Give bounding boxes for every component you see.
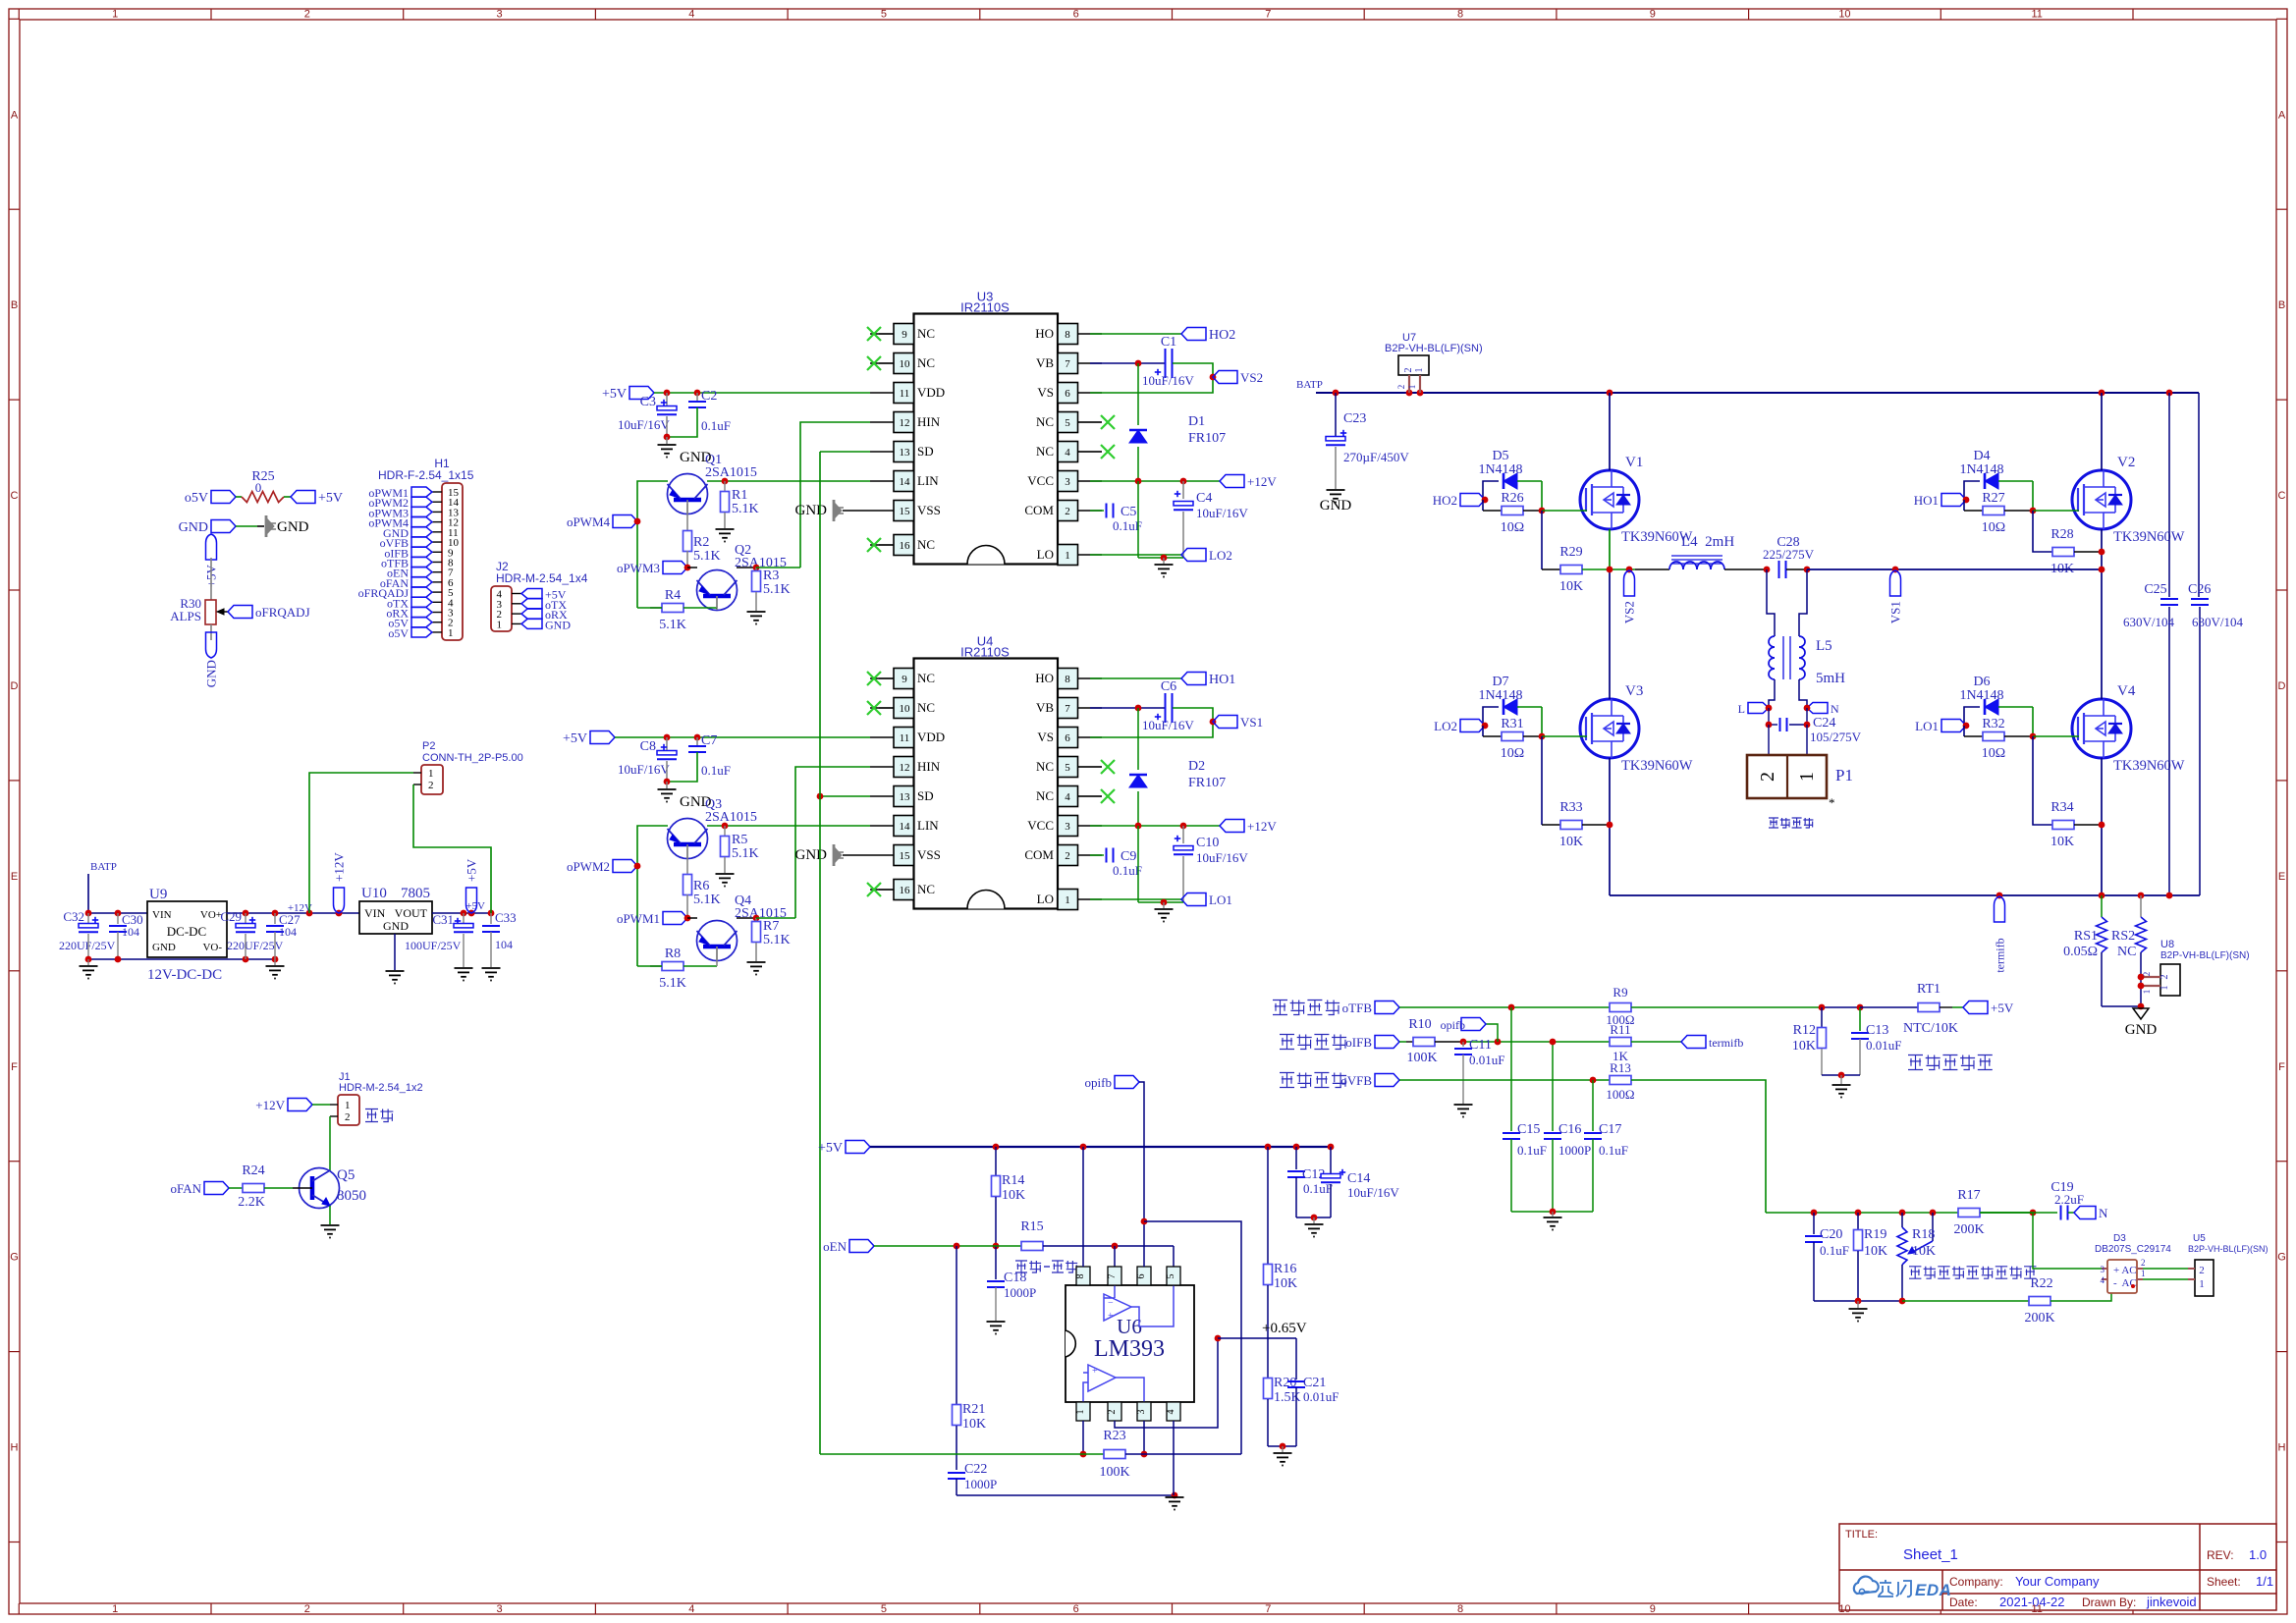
svg-text:U6: U6	[1117, 1315, 1142, 1338]
ground	[716, 528, 735, 530]
ground	[455, 967, 473, 969]
svg-text:9: 9	[902, 674, 907, 685]
svg-text:104: 104	[495, 938, 513, 951]
svg-text:C25: C25	[2144, 582, 2166, 597]
svg-text:+: +	[1108, 1311, 1114, 1322]
svg-text:R33: R33	[1559, 800, 1582, 815]
net flag VS1	[1210, 719, 1217, 726]
svg-text:C5: C5	[1121, 505, 1136, 519]
EasyEDA logo	[1854, 1577, 1879, 1594]
svg-text:TK39N60W: TK39N60W	[2113, 529, 2185, 545]
svg-text:1: 1	[2199, 1278, 2205, 1290]
svg-text:B2P-VH-BL(LF)(SN): B2P-VH-BL(LF)(SN)	[2188, 1244, 2269, 1254]
U4 pin 11 VDD	[894, 728, 914, 748]
capacitor C23	[1335, 393, 1337, 436]
op-amp driver U3 IR2110S body	[914, 314, 1059, 565]
svg-text:oFRQADJ: oFRQADJ	[255, 605, 310, 620]
svg-text:D: D	[2278, 680, 2286, 692]
svg-text:+12V: +12V	[332, 852, 347, 882]
svg-text:1: 1	[1796, 772, 1818, 782]
svg-text:oEN: oEN	[823, 1239, 847, 1254]
svg-text:R31: R31	[1501, 717, 1523, 731]
svg-text:TITLE:: TITLE:	[1845, 1529, 1878, 1541]
svg-text:10uF/16V: 10uF/16V	[1196, 850, 1248, 865]
thermistor RT1 NTC/10K	[1860, 1006, 1918, 1008]
net flag +5V	[1963, 1001, 1988, 1014]
ground	[1166, 1496, 1184, 1498]
svg-text:GND: GND	[795, 847, 828, 863]
capacitor C28	[1778, 561, 1780, 578]
net flag LO2	[1460, 720, 1485, 732]
svg-text:14: 14	[900, 476, 911, 488]
svg-text:LO2: LO2	[1434, 719, 1457, 733]
svg-text:VIN: VIN	[364, 906, 386, 920]
H1 pin 11 (GND)	[432, 531, 442, 533]
svg-text:2: 2	[2141, 1258, 2146, 1268]
wire V4 source	[2101, 758, 2103, 895]
svg-text:opifb: opifb	[1441, 1018, 1465, 1032]
wire bottom gnd rail	[1137, 481, 1139, 558]
svg-text:FR107: FR107	[1188, 776, 1226, 790]
svg-text:NC: NC	[917, 882, 935, 896]
resistor R15 (not fitted)	[874, 1245, 1021, 1247]
svg-text:R23: R23	[1103, 1429, 1125, 1443]
resistor R7	[755, 918, 757, 921]
svg-text:DC-DC: DC-DC	[167, 924, 206, 939]
svg-text:CONN-TH_2P-P5.00: CONN-TH_2P-P5.00	[422, 752, 523, 764]
svg-text:BATP: BATP	[90, 861, 117, 873]
svg-text:C23: C23	[1343, 411, 1366, 426]
svg-text:C16: C16	[1558, 1122, 1581, 1137]
wire R12/C13 gnd	[1822, 1074, 1860, 1076]
svg-text:10uF/16V: 10uF/16V	[1196, 506, 1248, 520]
svg-text:LIN: LIN	[917, 818, 939, 833]
svg-text:LO1: LO1	[1915, 719, 1939, 733]
svg-text:3: 3	[2101, 1265, 2105, 1274]
svg-text:10uF/16V: 10uF/16V	[618, 762, 670, 777]
resistor R28 10K	[2033, 511, 2052, 552]
svg-text:2SA1015: 2SA1015	[705, 810, 757, 825]
svg-text:REV:: REV:	[2207, 1548, 2234, 1562]
svg-text:+0.65V: +0.65V	[1262, 1321, 1307, 1336]
svg-text:HO1: HO1	[1914, 493, 1939, 508]
svg-text:5.1K: 5.1K	[763, 582, 791, 597]
resistor R34 10K	[2033, 736, 2052, 825]
wire opifb to pin6	[1139, 1082, 1144, 1267]
svg-text:2.2uF: 2.2uF	[2054, 1192, 2084, 1207]
svg-text:4: 4	[1065, 447, 1070, 459]
wire cap join	[667, 752, 697, 782]
resistor R3	[755, 568, 757, 570]
svg-text:GND: GND	[152, 942, 176, 953]
svg-text:2: 2	[2159, 975, 2170, 980]
resistor RS2 NC	[2140, 895, 2142, 917]
svg-text:NTC/10K: NTC/10K	[1903, 1021, 1958, 1036]
U3 pin 11 VDD	[894, 383, 914, 404]
svg-text:U9: U9	[149, 887, 167, 902]
J2 pin 3 (oTX)	[512, 603, 521, 605]
svg-text:15: 15	[900, 506, 911, 517]
J2 pin 1 (GND)	[512, 622, 521, 624]
svg-text:4: 4	[1065, 791, 1070, 803]
U6 pin 7	[1108, 1267, 1121, 1285]
svg-text:Sheet:: Sheet:	[2207, 1575, 2241, 1589]
svg-text:VO-: VO-	[202, 942, 222, 953]
svg-text:7: 7	[1065, 358, 1070, 370]
svg-text:B2P-VH-BL(LF)(SN): B2P-VH-BL(LF)(SN)	[1385, 343, 1483, 354]
svg-text:N: N	[1831, 702, 1839, 716]
svg-text:C20: C20	[1820, 1227, 1842, 1242]
resistor R22 200K	[1902, 1300, 2029, 1302]
svg-text:5.1K: 5.1K	[693, 893, 721, 907]
svg-text:DB207S_C29174: DB207S_C29174	[2095, 1244, 2171, 1255]
svg-text:1: 1	[345, 1100, 351, 1111]
svg-text:H: H	[11, 1442, 19, 1454]
svg-text:7: 7	[1065, 703, 1070, 715]
ground	[1327, 489, 1345, 491]
svg-text:2: 2	[2199, 1265, 2205, 1276]
svg-text:+ AC: + AC	[2113, 1265, 2137, 1276]
svg-text:C9: C9	[1121, 849, 1136, 864]
capacitor C30	[117, 913, 119, 924]
svg-text:1000P: 1000P	[964, 1477, 997, 1491]
svg-text:TK39N60W: TK39N60W	[2113, 758, 2185, 774]
transistor Q4 2SA1015	[697, 921, 738, 961]
svg-text:LIN: LIN	[917, 473, 939, 488]
svg-text:GND: GND	[795, 503, 828, 518]
svg-text:FR107: FR107	[1188, 431, 1226, 446]
svg-text:3: 3	[1065, 476, 1070, 488]
svg-text:COM: COM	[1024, 847, 1054, 862]
ground	[1832, 1084, 1851, 1086]
svg-text:opifb: opifb	[1085, 1075, 1112, 1090]
U6 pin 3	[1137, 1402, 1151, 1421]
U3 pin 16 NC	[894, 535, 914, 556]
U4 pin 1 LO	[1058, 890, 1078, 910]
svg-text:C3: C3	[640, 395, 656, 409]
svg-text:C24: C24	[1813, 716, 1835, 730]
svg-text:5: 5	[1065, 762, 1070, 774]
ground	[1454, 1104, 1473, 1106]
wire gate to V4	[2033, 735, 2079, 737]
svg-text:LM393: LM393	[1094, 1336, 1165, 1362]
svg-text:2: 2	[1403, 368, 1414, 373]
ground GND	[236, 525, 257, 527]
svg-text:C6: C6	[1161, 679, 1176, 694]
svg-text:VS2: VS2	[1240, 370, 1263, 385]
capacitor C12	[1295, 1147, 1297, 1169]
resistor R21 10K	[956, 1246, 957, 1404]
net flag VS2	[1210, 374, 1217, 381]
svg-text:R8: R8	[665, 947, 681, 961]
U4 pin 9 NC	[894, 669, 914, 689]
svg-text:R18: R18	[1912, 1227, 1935, 1242]
svg-text:R19: R19	[1864, 1227, 1886, 1242]
svg-text:D7: D7	[1492, 675, 1508, 689]
H1 pin 4 (oTX)	[432, 601, 442, 603]
U3 pin 4 NC	[1058, 442, 1078, 462]
H1 pin 3 (oRX)	[432, 612, 442, 614]
wire VS1 rail	[1807, 568, 2102, 570]
wire gate to V2	[2033, 510, 2079, 512]
resistor R12 10K	[1821, 1007, 1823, 1027]
svg-text:C10: C10	[1196, 836, 1219, 850]
resistor RS1 0.05R	[2101, 895, 2103, 917]
resistor R25	[236, 496, 242, 498]
capacitor C3	[666, 393, 668, 408]
svg-text:ALPS: ALPS	[170, 609, 201, 623]
svg-text:2: 2	[428, 780, 434, 791]
ground	[482, 967, 501, 969]
svg-text:10: 10	[900, 703, 911, 715]
svg-text:1: 1	[448, 627, 454, 639]
capacitor C27	[274, 913, 276, 924]
svg-text:3: 3	[496, 9, 502, 21]
svg-text:+12V: +12V	[255, 1098, 285, 1112]
svg-text:12V-DC-DC: 12V-DC-DC	[147, 967, 222, 983]
H1 pin 5 (oFRQADJ)	[432, 591, 442, 593]
capacitor C25	[2168, 393, 2170, 597]
svg-text:C13: C13	[1866, 1023, 1888, 1038]
resistor R23 100K	[820, 1453, 1104, 1455]
H1 pin 9 (oIFB)	[432, 551, 442, 553]
svg-text:D5: D5	[1492, 449, 1508, 463]
svg-text:1N4148: 1N4148	[1478, 462, 1522, 477]
svg-text:C4: C4	[1196, 491, 1212, 506]
wire Q emitter	[687, 567, 697, 568]
wire C12/C14 gnd	[1296, 1217, 1331, 1218]
svg-text:9: 9	[1650, 9, 1656, 21]
svg-text:5.1K: 5.1K	[659, 976, 686, 991]
wire V2 source	[2101, 529, 2103, 570]
svg-text:EDA: EDA	[1915, 1581, 1951, 1599]
svg-text:6: 6	[1073, 9, 1079, 21]
net flag LO1	[1090, 898, 1181, 900]
svg-text:10Ω: 10Ω	[1982, 746, 2005, 761]
svg-text:10K: 10K	[1792, 1039, 1816, 1054]
svg-text:R16: R16	[1274, 1262, 1296, 1276]
wire HIN	[795, 767, 870, 918]
ground	[1552, 1212, 1554, 1217]
wire Q collector to R	[737, 917, 756, 919]
wire C15-C17 gnd join	[1511, 1211, 1593, 1213]
wire P2 pin2 to +5V	[413, 784, 421, 785]
svg-text:G: G	[2277, 1252, 2286, 1264]
svg-text:9: 9	[1650, 1603, 1656, 1615]
wire +5V to VDD	[654, 392, 870, 394]
svg-text:R24: R24	[242, 1163, 264, 1178]
svg-text:1: 1	[1407, 385, 1417, 390]
svg-text:o5V: o5V	[388, 626, 409, 640]
title block	[1839, 1524, 2276, 1610]
svg-text:2: 2	[1396, 385, 1406, 390]
svg-text:104: 104	[279, 925, 297, 939]
svg-text:2: 2	[1065, 850, 1070, 862]
svg-text:VIN: VIN	[152, 909, 172, 921]
H1 pin 8 (oTFB)	[432, 561, 442, 563]
resistor R17 200K	[1958, 1212, 2033, 1214]
U4 pin 15 VSS	[894, 845, 914, 866]
net flag VS1	[1890, 570, 1901, 596]
svg-text:10: 10	[900, 358, 911, 370]
wire +0.65V node	[1218, 1337, 1296, 1339]
svg-text:N: N	[2099, 1206, 2108, 1220]
wire R13 out	[1631, 1080, 1766, 1213]
svg-text:1: 1	[112, 9, 118, 21]
svg-text:1N4148: 1N4148	[1478, 688, 1522, 703]
no-connect pins	[867, 327, 881, 341]
capacitor C20	[1813, 1213, 1815, 1234]
svg-text:5mH: 5mH	[1816, 671, 1845, 686]
net flag HO2	[1460, 494, 1485, 507]
capacitor C26	[2198, 393, 2200, 597]
net flag +12V	[288, 1099, 312, 1111]
svg-text:+5V: +5V	[465, 858, 479, 882]
capacitor C16	[1552, 1042, 1554, 1131]
resistor R11 1K	[1610, 1038, 1631, 1047]
svg-text:VSS: VSS	[917, 847, 941, 862]
capacitor C29	[245, 913, 246, 924]
svg-text:10Ω: 10Ω	[1501, 520, 1524, 535]
svg-text:Sheet_1: Sheet_1	[1903, 1546, 1958, 1563]
ground	[747, 611, 766, 613]
svg-text:7: 7	[1107, 1274, 1118, 1279]
svg-text:11: 11	[900, 732, 910, 744]
svg-text:R1: R1	[732, 488, 747, 503]
net flag oEN	[849, 1240, 874, 1253]
svg-text:HDR-F-2.54_1x15: HDR-F-2.54_1x15	[378, 468, 474, 482]
svg-text:10Ω: 10Ω	[1501, 746, 1524, 761]
inductor L4 2mH	[1669, 562, 1724, 569]
capacitor C6	[1090, 707, 1165, 709]
net flag N	[2074, 1207, 2096, 1219]
capacitor C19	[2060, 1206, 2062, 1220]
U6 pin 4	[1167, 1402, 1180, 1421]
svg-text:11: 11	[2031, 1603, 2042, 1615]
svg-text:VSS: VSS	[917, 503, 941, 517]
svg-text:10uF/16V: 10uF/16V	[1142, 373, 1194, 388]
diode D6 1N4148	[1964, 707, 1980, 726]
net flag +12V	[1220, 820, 1244, 833]
U6 pin 1	[1076, 1402, 1090, 1421]
transistor V2 TK39N60W	[2072, 470, 2131, 529]
svg-text:2: 2	[304, 1603, 310, 1615]
svg-text:NC: NC	[1036, 444, 1054, 459]
diode D2 FR107	[1137, 708, 1139, 770]
wire U10 gnd	[394, 934, 396, 970]
svg-text:VO+: VO+	[200, 909, 222, 921]
svg-text:VCC: VCC	[1027, 818, 1054, 833]
svg-text:R6: R6	[693, 879, 709, 893]
resistor R14 10K	[995, 1147, 997, 1175]
svg-text:200K: 200K	[2024, 1311, 2054, 1325]
svg-text:R10: R10	[1408, 1017, 1431, 1032]
net flag L	[1748, 703, 1769, 714]
svg-text:5.1K: 5.1K	[732, 502, 759, 516]
svg-text:+5V: +5V	[318, 491, 343, 506]
svg-text:1: 1	[2141, 1269, 2146, 1278]
wire gate to V1	[1542, 510, 1587, 512]
capacitor C13	[1859, 1007, 1861, 1031]
wire VS2 rail	[1610, 568, 1635, 570]
svg-text:C2: C2	[701, 389, 717, 404]
label temperature sensor (CJK)	[1908, 1055, 1923, 1070]
svg-text:F: F	[2278, 1061, 2285, 1073]
H1 pin 13 (oPWM3)	[432, 511, 442, 513]
wire J1 pin2 to Q5	[330, 1115, 338, 1117]
wire pin4 riser	[1173, 1421, 1175, 1495]
U4 pin 16 NC	[894, 880, 914, 900]
capacitor C11	[1462, 1042, 1464, 1047]
resistor R27 10R	[1963, 500, 1965, 511]
U4 pin 14 LIN	[894, 816, 914, 837]
svg-text:1000P: 1000P	[1004, 1285, 1036, 1300]
wire bottom gnd rail	[1814, 1300, 1902, 1302]
svg-text:P1: P1	[1835, 766, 1853, 784]
U3 pin 13 SD	[894, 442, 914, 462]
svg-text:BATP: BATP	[1296, 379, 1323, 391]
svg-text:5.1K: 5.1K	[693, 549, 721, 564]
H1 pin 15 (oPWM1)	[432, 491, 442, 493]
resistor R1	[707, 480, 870, 482]
ground	[1163, 558, 1165, 564]
svg-text:VB: VB	[1036, 700, 1054, 715]
U4 pin 3 VCC	[1058, 816, 1078, 837]
svg-text:oVFB: oVFB	[1340, 1073, 1372, 1088]
potentiometer R18 10K	[1901, 1213, 1903, 1227]
svg-text:Your Company: Your Company	[2015, 1574, 2100, 1589]
svg-text:E: E	[11, 871, 18, 883]
svg-text:NC: NC	[917, 700, 935, 715]
net flag +5V	[291, 491, 315, 504]
wire base R2	[686, 504, 688, 531]
wire R22 to D3 -AC	[2050, 1279, 2111, 1301]
svg-text:HO1: HO1	[1209, 673, 1235, 687]
svg-text:LO2: LO2	[1209, 548, 1232, 563]
svg-text:R7: R7	[763, 919, 779, 934]
svg-text:1: 1	[112, 1603, 118, 1615]
wire RS bottom	[2102, 1005, 2141, 1007]
label not fitted - spare (CJK)	[1015, 1261, 1027, 1272]
H1 pin 14 (oPWM2)	[432, 501, 442, 503]
svg-text:104: 104	[122, 925, 139, 939]
net flag oPWM2	[637, 826, 668, 966]
svg-text:5.1K: 5.1K	[763, 933, 791, 947]
svg-text:U5: U5	[2193, 1233, 2206, 1244]
svg-text:D4: D4	[1973, 449, 1990, 463]
wire VB-VS loop	[1090, 708, 1213, 737]
label temperature feedback (CJK)	[1273, 1001, 1287, 1015]
svg-text:L: L	[1738, 702, 1745, 716]
svg-text:GND: GND	[545, 618, 571, 631]
wire SD	[820, 451, 870, 453]
svg-text:R12: R12	[1793, 1023, 1816, 1038]
svg-text:C: C	[11, 490, 19, 502]
svg-text:B: B	[11, 299, 18, 311]
transistor V3 TK39N60W	[1580, 699, 1639, 758]
ground	[666, 782, 668, 788]
U3 pin 14 LIN	[894, 471, 914, 492]
svg-text:5: 5	[881, 1603, 887, 1615]
svg-text:V2: V2	[2117, 455, 2135, 470]
wire R20/C21 gnd	[1268, 1445, 1296, 1447]
svg-text:A: A	[11, 109, 19, 121]
svg-text:3: 3	[1136, 1410, 1147, 1415]
svg-text:C11: C11	[1469, 1038, 1492, 1053]
svg-text:NC: NC	[1036, 759, 1054, 774]
svg-text:0: 0	[255, 480, 262, 495]
svg-text:V1: V1	[1625, 455, 1643, 470]
